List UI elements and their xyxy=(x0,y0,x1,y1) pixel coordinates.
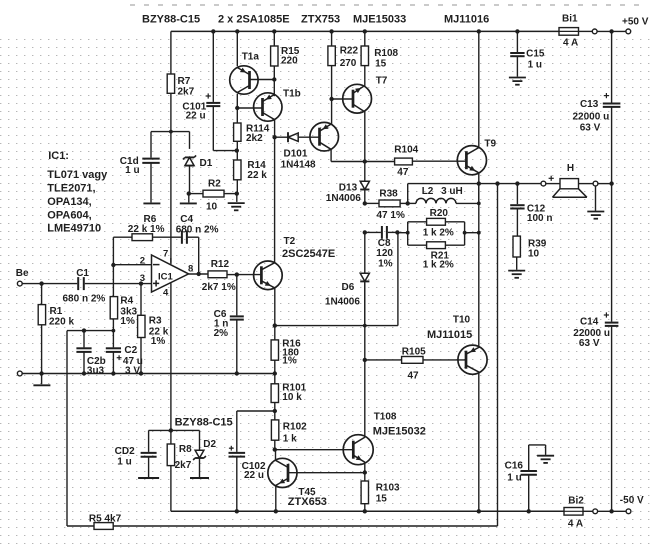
svg-text:1N4148: 1N4148 xyxy=(281,160,316,171)
svg-text:Be: Be xyxy=(16,268,29,279)
svg-text:1N4006: 1N4006 xyxy=(326,193,361,204)
svg-text:R3: R3 xyxy=(149,315,162,326)
svg-text:T108: T108 xyxy=(374,412,397,423)
svg-text:C14: C14 xyxy=(580,316,599,327)
svg-text:10: 10 xyxy=(206,201,218,212)
svg-text:4 A: 4 A xyxy=(568,519,583,530)
svg-text:R38: R38 xyxy=(379,189,398,200)
svg-text:1%: 1% xyxy=(378,258,393,269)
svg-text:L2: L2 xyxy=(422,186,434,197)
svg-text:C2: C2 xyxy=(124,345,137,356)
svg-text:R22: R22 xyxy=(340,46,359,57)
svg-text:1 u: 1 u xyxy=(528,60,542,71)
svg-text:BZY88-C15: BZY88-C15 xyxy=(175,416,233,428)
svg-text:D2: D2 xyxy=(203,439,216,450)
svg-text:D101: D101 xyxy=(284,148,308,159)
svg-text:270: 270 xyxy=(340,58,357,69)
svg-text:T1b: T1b xyxy=(283,89,301,100)
svg-text:47: 47 xyxy=(408,370,420,381)
svg-text:TL071 vagy: TL071 vagy xyxy=(47,169,108,181)
svg-text:T1a: T1a xyxy=(242,52,260,63)
svg-text:MJ11015: MJ11015 xyxy=(427,329,472,341)
svg-text:22000 u: 22000 u xyxy=(572,112,609,123)
svg-text:22 k 1%: 22 k 1% xyxy=(128,224,165,235)
svg-text:Bi1: Bi1 xyxy=(562,14,578,25)
svg-text:TLE2071,: TLE2071, xyxy=(47,183,95,195)
svg-text:R8: R8 xyxy=(179,444,192,455)
svg-text:1 k: 1 k xyxy=(283,434,297,445)
svg-text:LME49710: LME49710 xyxy=(47,222,101,234)
svg-text:R14: R14 xyxy=(247,160,266,171)
svg-text:IC1: IC1 xyxy=(158,272,174,283)
svg-text:680 n 2%: 680 n 2% xyxy=(63,294,106,305)
svg-text:C15: C15 xyxy=(526,49,545,60)
svg-text:MJE15032: MJE15032 xyxy=(373,425,426,437)
svg-text:BZY88-C15: BZY88-C15 xyxy=(142,14,200,26)
svg-text:1 k 2%: 1 k 2% xyxy=(423,259,454,270)
svg-text:T10: T10 xyxy=(453,315,471,326)
svg-text:-50 V: -50 V xyxy=(620,495,644,506)
svg-text:C13: C13 xyxy=(580,99,599,110)
svg-text:22 u: 22 u xyxy=(244,470,264,481)
svg-text:3u3: 3u3 xyxy=(87,365,105,376)
svg-text:15: 15 xyxy=(375,58,387,69)
svg-text:IC1:: IC1: xyxy=(48,150,69,162)
svg-text:4 A: 4 A xyxy=(563,38,578,49)
svg-text:15: 15 xyxy=(376,494,388,505)
svg-text:2SC2547E: 2SC2547E xyxy=(282,248,335,260)
svg-text:H: H xyxy=(567,163,574,174)
svg-text:1 k 2%: 1 k 2% xyxy=(423,228,454,239)
svg-text:8: 8 xyxy=(188,264,193,275)
svg-text:680 n 2%: 680 n 2% xyxy=(176,225,219,236)
svg-text:R12: R12 xyxy=(211,259,230,270)
svg-text:220: 220 xyxy=(281,56,298,67)
svg-text:4: 4 xyxy=(163,287,169,298)
svg-text:R108: R108 xyxy=(374,48,398,59)
svg-text:2k7 1%: 2k7 1% xyxy=(202,282,236,293)
svg-text:220 k: 220 k xyxy=(49,317,74,328)
svg-text:2%: 2% xyxy=(214,328,229,339)
svg-text:ZTX653: ZTX653 xyxy=(288,496,327,508)
svg-text:2k7: 2k7 xyxy=(178,87,195,98)
svg-text:63 V: 63 V xyxy=(579,338,600,349)
svg-text:R102: R102 xyxy=(283,421,307,432)
svg-text:1N4006: 1N4006 xyxy=(325,296,360,307)
svg-text:D1: D1 xyxy=(200,158,213,169)
svg-text:C4: C4 xyxy=(180,214,193,225)
svg-text:CD2: CD2 xyxy=(115,446,135,457)
svg-text:T2: T2 xyxy=(284,236,296,247)
svg-text:D13: D13 xyxy=(339,182,358,193)
svg-text:R104: R104 xyxy=(394,144,418,155)
svg-text:47 1%: 47 1% xyxy=(377,210,405,221)
svg-text:10 k: 10 k xyxy=(282,392,302,403)
svg-text:MJ11016: MJ11016 xyxy=(444,14,489,26)
svg-text:Bi2: Bi2 xyxy=(568,495,584,506)
svg-text:OPA134,: OPA134, xyxy=(47,196,91,208)
svg-text:10: 10 xyxy=(528,248,540,259)
svg-text:2k2: 2k2 xyxy=(246,133,263,144)
svg-text:R105: R105 xyxy=(402,346,426,357)
svg-text:3 V: 3 V xyxy=(125,365,140,376)
svg-text:100 n: 100 n xyxy=(527,213,553,224)
svg-text:D6: D6 xyxy=(342,282,355,293)
svg-text:7: 7 xyxy=(163,248,168,259)
svg-text:2 x 2SA1085E: 2 x 2SA1085E xyxy=(218,14,290,26)
svg-text:R20: R20 xyxy=(430,208,449,219)
svg-text:R103: R103 xyxy=(376,483,400,494)
svg-text:47: 47 xyxy=(397,167,409,178)
svg-text:T9: T9 xyxy=(484,138,496,149)
svg-text:1%: 1% xyxy=(282,356,297,367)
svg-text:OPA604,: OPA604, xyxy=(47,210,91,222)
svg-text:1 u: 1 u xyxy=(117,457,131,468)
svg-text:C1: C1 xyxy=(76,268,89,279)
svg-text:R4: R4 xyxy=(120,296,133,307)
svg-text:1%: 1% xyxy=(120,316,135,327)
svg-text:22 k: 22 k xyxy=(247,170,267,181)
svg-text:3 uH: 3 uH xyxy=(441,186,463,197)
svg-text:ZTX753: ZTX753 xyxy=(301,14,340,26)
svg-text:R2: R2 xyxy=(208,178,221,189)
svg-text:R5 4k7: R5 4k7 xyxy=(89,513,122,524)
svg-text:1 u: 1 u xyxy=(125,165,139,176)
svg-text:63 V: 63 V xyxy=(580,123,601,134)
svg-text:22 u: 22 u xyxy=(186,111,206,122)
svg-text:C16: C16 xyxy=(505,460,524,471)
svg-text:2k7: 2k7 xyxy=(175,460,192,471)
svg-text:MJE15033: MJE15033 xyxy=(353,14,406,26)
svg-text:1%: 1% xyxy=(151,336,166,347)
svg-text:R7: R7 xyxy=(178,76,191,87)
svg-text:+50 V: +50 V xyxy=(622,17,649,28)
svg-text:1 u: 1 u xyxy=(507,473,521,484)
svg-text:T7: T7 xyxy=(376,75,388,86)
